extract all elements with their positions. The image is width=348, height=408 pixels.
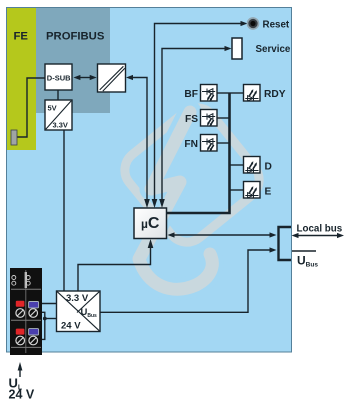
svg-text:E: E bbox=[265, 187, 272, 198]
local bus bracket bbox=[279, 227, 292, 260]
wire bus to D bbox=[230, 164, 245, 166]
LED D bbox=[244, 157, 261, 174]
double arrow D-SUB / isolator bbox=[77, 77, 93, 79]
LED BF bbox=[201, 85, 218, 102]
svg-text:FE: FE bbox=[14, 31, 29, 43]
wire D-SUB to FE contact bbox=[17, 78, 45, 137]
LED FN bbox=[201, 135, 218, 152]
PROFIBUS header area (gray-blue) bbox=[36, 8, 110, 113]
thick LED bus bbox=[167, 93, 230, 213]
wire uC to Reset bbox=[155, 24, 245, 206]
svg-text:D-SUB: D-SUB bbox=[47, 74, 71, 83]
power supply box 3.3V/24V bbox=[57, 291, 101, 332]
red terminal 2 bbox=[16, 329, 25, 335]
svg-text:µC: µC bbox=[141, 215, 160, 232]
galvanic isolator box bbox=[98, 64, 126, 92]
svg-text:3.3 V: 3.3 V bbox=[66, 293, 89, 304]
svg-text:Local bus: Local bus bbox=[297, 224, 343, 235]
wire BF to bus bbox=[217, 92, 230, 94]
wire bus to E bbox=[230, 189, 245, 191]
svg-text:PROFIBUS: PROFIBUS bbox=[46, 31, 105, 43]
wire D-SUB to 5V converter bbox=[57, 90, 59, 100]
microcontroller uC bbox=[134, 208, 167, 239]
svg-text:D: D bbox=[265, 162, 272, 173]
svg-text:3.3V: 3.3V bbox=[53, 121, 68, 130]
junction bbox=[43, 317, 47, 321]
wire terminal to power supply 24V input 1 bbox=[39, 303, 57, 305]
wire 5V converter to power supply bbox=[63, 130, 65, 291]
D-SUB connector box bbox=[45, 64, 72, 90]
svg-text:FN: FN bbox=[184, 139, 198, 150]
svg-text:Service: Service bbox=[256, 44, 291, 55]
svg-text:24 V: 24 V bbox=[9, 388, 35, 402]
blue terminal 1 bbox=[29, 302, 39, 308]
UL supply arrow bbox=[19, 366, 21, 377]
terminal block (black) bbox=[10, 268, 42, 355]
Reset button bbox=[248, 18, 259, 29]
LED E bbox=[244, 182, 261, 199]
FE bar (green) bbox=[7, 8, 36, 150]
screw terminal circles row 1 bbox=[16, 309, 25, 318]
red terminal 1 bbox=[16, 301, 25, 307]
wire isolator to uC (bidirectional) bbox=[130, 78, 147, 206]
LED FS bbox=[201, 110, 218, 127]
svg-text:BF: BF bbox=[184, 89, 198, 100]
main module body (light blue) bbox=[7, 8, 292, 353]
svg-text:Reset: Reset bbox=[263, 20, 290, 31]
Service switch bbox=[232, 38, 242, 59]
terminal screws (small) bbox=[12, 276, 16, 280]
wire FN to bus bbox=[217, 142, 230, 144]
svg-text:FS: FS bbox=[185, 114, 198, 125]
watermark bolt halo bbox=[139, 112, 212, 289]
wire uC to local-bus bracket (bidirectional) bbox=[170, 234, 273, 236]
watermark logo (rounded square) bbox=[117, 100, 267, 289]
UBus output line bbox=[292, 250, 316, 252]
wire FS to bus bbox=[217, 117, 230, 119]
blue terminal 2 bbox=[29, 329, 39, 335]
FE contact pad bbox=[11, 130, 17, 145]
wire uC to Service bbox=[162, 49, 226, 206]
wire power supply to uC bottom bbox=[78, 242, 151, 291]
watermark bolt bbox=[139, 112, 212, 289]
Local bus double arrow bbox=[294, 235, 341, 237]
wire power supply UBus to bracket bbox=[100, 250, 273, 312]
5V/3.3V converter box bbox=[45, 100, 72, 130]
svg-text:24 V: 24 V bbox=[61, 321, 81, 332]
LED RDY bbox=[244, 85, 261, 102]
wire terminal loop to power supply input 2 bbox=[39, 312, 45, 339]
terminal slots bbox=[25, 270, 27, 353]
wire bus to RDY bbox=[230, 92, 245, 94]
svg-text:RDY: RDY bbox=[264, 89, 286, 100]
screw terminal circles row 2 bbox=[16, 336, 25, 345]
svg-text:5V: 5V bbox=[48, 104, 57, 113]
